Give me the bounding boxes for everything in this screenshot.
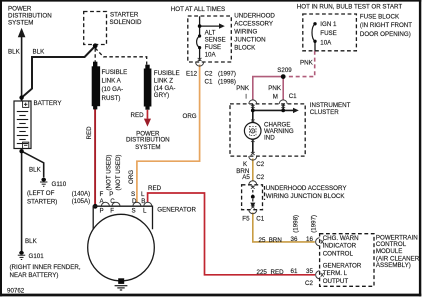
svg-text:RED: RED <box>86 126 93 140</box>
svg-text:LINK A: LINK A <box>102 78 122 85</box>
svg-text:SOLENOID: SOLENOID <box>110 19 143 26</box>
svg-text:WIRING: WIRING <box>234 29 257 36</box>
svg-text:BLK: BLK <box>25 238 38 245</box>
svg-text:D: D <box>132 198 137 205</box>
svg-text:RED: RED <box>131 112 145 119</box>
svg-text:C2: C2 <box>205 70 213 77</box>
svg-text:(105A): (105A) <box>72 198 91 205</box>
svg-text:GENERATOR: GENERATOR <box>157 206 196 213</box>
svg-text:DISTRIBUTION: DISTRIBUTION <box>8 13 52 20</box>
svg-text:(1998): (1998) <box>292 215 299 233</box>
svg-text:ASSEMBLY): ASSEMBLY) <box>376 262 411 269</box>
svg-text:BLK: BLK <box>33 48 46 55</box>
svg-text:SENSE: SENSE <box>205 37 226 44</box>
svg-text:C: C <box>110 198 115 205</box>
svg-text:RED: RED <box>271 269 285 276</box>
svg-text:I: I <box>245 93 247 100</box>
svg-text:F5: F5 <box>242 216 250 223</box>
svg-text:ACCESSORY: ACCESSORY <box>234 21 273 28</box>
svg-text:HOT AT ALL TIMES: HOT AT ALL TIMES <box>171 6 225 13</box>
svg-text:BRN: BRN <box>269 237 282 244</box>
svg-text:G110: G110 <box>52 181 67 188</box>
svg-text:JUNCTION: JUNCTION <box>234 37 265 44</box>
svg-text:CONTROL: CONTROL <box>323 250 354 257</box>
svg-text:PNK: PNK <box>236 85 250 92</box>
svg-text:36: 36 <box>291 236 298 243</box>
svg-text:35: 35 <box>306 268 313 275</box>
svg-text:C1: C1 <box>289 93 297 100</box>
svg-text:C2: C2 <box>305 280 313 287</box>
svg-text:(10 GA-: (10 GA- <box>102 86 124 93</box>
svg-text:(IN RIGHT FRONT: (IN RIGHT FRONT <box>360 22 412 29</box>
svg-text:CLUSTER: CLUSTER <box>310 109 339 116</box>
svg-text:FUSE: FUSE <box>320 30 337 37</box>
svg-text:(14 GA-: (14 GA- <box>154 85 176 92</box>
svg-text:RED: RED <box>148 185 162 192</box>
svg-text:IND: IND <box>264 135 275 142</box>
svg-text:(NOT USED): (NOT USED) <box>115 155 122 191</box>
svg-text:CHG. WARN: CHG. WARN <box>323 235 359 242</box>
svg-text:DISTRIBUTION: DISTRIBUTION <box>126 137 170 144</box>
svg-text:PNK: PNK <box>268 85 282 92</box>
svg-text:(RIGHT INNER FENDER,: (RIGHT INNER FENDER, <box>10 264 81 271</box>
svg-text:C1: C1 <box>205 79 213 86</box>
svg-text:BATTERY: BATTERY <box>34 100 62 107</box>
svg-text:B: B <box>141 198 145 205</box>
svg-text:S209: S209 <box>277 67 292 74</box>
svg-text:IGN 1: IGN 1 <box>320 21 337 28</box>
svg-text:F: F <box>110 207 114 214</box>
svg-text:INSTRUMENT: INSTRUMENT <box>310 102 351 109</box>
svg-text:10A: 10A <box>320 40 332 47</box>
svg-text:(NOT USED): (NOT USED) <box>106 155 113 191</box>
svg-text:(1997): (1997) <box>310 215 317 233</box>
svg-text:WIRING JUNCTION BLOCK: WIRING JUNCTION BLOCK <box>266 193 346 200</box>
svg-text:25: 25 <box>259 237 266 244</box>
svg-text:POWER: POWER <box>8 6 32 13</box>
svg-text:61: 61 <box>291 268 298 275</box>
svg-text:10A: 10A <box>205 52 217 59</box>
svg-text:ORG: ORG <box>128 170 135 184</box>
svg-text:C2: C2 <box>256 161 264 168</box>
svg-text:SYSTEM: SYSTEM <box>135 144 160 151</box>
svg-text:FUSE BLOCK: FUSE BLOCK <box>360 13 400 20</box>
svg-text:ALT: ALT <box>205 30 216 37</box>
svg-text:BLK: BLK <box>8 48 21 55</box>
svg-text:BLK: BLK <box>29 166 42 173</box>
svg-text:M: M <box>273 93 278 100</box>
svg-text:C1: C1 <box>256 216 264 223</box>
svg-text:FUSIBLE: FUSIBLE <box>102 69 128 76</box>
svg-text:GENERATOR: GENERATOR <box>323 262 362 269</box>
svg-text:FUSIBLE: FUSIBLE <box>154 70 180 77</box>
svg-text:INDICATOR: INDICATOR <box>323 243 357 250</box>
svg-text:TERM. L: TERM. L <box>323 270 348 277</box>
svg-text:NEAR BATTERY): NEAR BATTERY) <box>10 272 59 279</box>
svg-text:UNDERHOOD: UNDERHOOD <box>234 13 275 20</box>
svg-text:E12: E12 <box>186 70 198 77</box>
svg-text:RUST): RUST) <box>102 95 121 102</box>
svg-text:(1997): (1997) <box>218 70 236 77</box>
svg-text:ORG: ORG <box>183 113 197 120</box>
svg-text:S: S <box>132 207 136 214</box>
svg-text:LINK Z: LINK Z <box>154 77 173 84</box>
svg-text:A5: A5 <box>242 174 250 181</box>
svg-text:STARTER): STARTER) <box>27 198 57 205</box>
svg-text:16: 16 <box>306 236 313 243</box>
svg-text:L: L <box>143 207 147 214</box>
svg-text:UNDERHOOD ACCESSORY: UNDERHOOD ACCESSORY <box>266 185 347 192</box>
svg-text:G101: G101 <box>29 253 45 260</box>
svg-text:PNK: PNK <box>300 59 314 66</box>
svg-text:BLOCK: BLOCK <box>234 45 256 52</box>
svg-text:90762: 90762 <box>7 287 25 294</box>
svg-text:FUSE: FUSE <box>205 44 222 51</box>
svg-text:GRY): GRY) <box>154 92 169 99</box>
svg-text:P: P <box>100 207 104 214</box>
svg-text:(LEFT OF: (LEFT OF <box>27 190 55 197</box>
svg-text:225: 225 <box>257 269 268 276</box>
svg-text:MODULE: MODULE <box>376 248 402 255</box>
svg-text:DOOR OPENING): DOOR OPENING) <box>360 31 411 38</box>
svg-text:SYSTEM: SYSTEM <box>8 20 33 27</box>
svg-text:STARTER: STARTER <box>110 11 139 18</box>
svg-text:OUTPUT: OUTPUT <box>323 278 349 285</box>
svg-text:(140A): (140A) <box>72 190 91 197</box>
svg-text:C2: C2 <box>256 174 264 181</box>
svg-text:HOT IN RUN, BULB TEST OR START: HOT IN RUN, BULB TEST OR START <box>297 3 403 10</box>
svg-text:(1998): (1998) <box>218 79 236 86</box>
